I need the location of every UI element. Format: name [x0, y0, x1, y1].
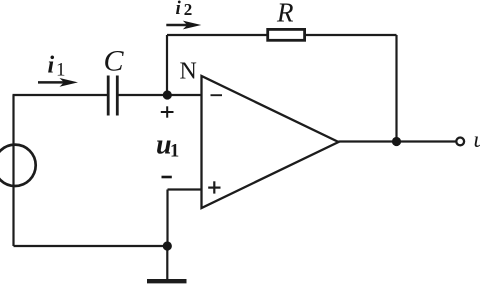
current arrow i2 [166, 21, 201, 30]
node N junction dot [163, 90, 172, 99]
wire non-inverting input horizontal [168, 188, 202, 190]
svg-text:1: 1 [56, 60, 66, 81]
svg-text:i: i [48, 53, 55, 79]
svg-text:R: R [276, 0, 294, 28]
wire feedback vertical at node N [166, 35, 168, 95]
op-amp U triangle [202, 76, 339, 208]
wire input horizontal left [13, 94, 108, 96]
svg-text:i: i [176, 0, 182, 19]
node bottom junction dot [163, 241, 172, 250]
svg-text:C: C [104, 44, 125, 77]
svg-text:N: N [180, 58, 197, 84]
wire input horizontal right to op-amp [119, 94, 202, 96]
wire left vertical [12, 95, 14, 246]
current arrow i1 [38, 78, 78, 87]
capacitor C left plate [107, 76, 110, 116]
wire ground stem [166, 246, 168, 280]
wire output [339, 140, 457, 142]
wire feedback right vertical [395, 35, 397, 142]
wire top feedback left segment [167, 34, 268, 36]
svg-text:1: 1 [170, 141, 179, 161]
output terminal open circle [456, 138, 464, 146]
node output junction dot [392, 137, 401, 146]
ground bar [147, 279, 187, 283]
op-amp inverting pin minus [211, 94, 223, 96]
op-amp non-inverting pin plus [208, 181, 220, 193]
label plus polarity of u1 [161, 106, 174, 117]
source US circle [0, 145, 36, 186]
resistor R [268, 29, 305, 40]
svg-text:2: 2 [184, 0, 193, 19]
wire top feedback right segment [305, 34, 397, 36]
label minus polarity of u1 [162, 176, 172, 179]
svg-text:u: u [474, 127, 480, 152]
capacitor C right plate [116, 76, 119, 116]
wire non-inverting vertical down [166, 190, 168, 247]
wire bottom return [14, 245, 168, 247]
